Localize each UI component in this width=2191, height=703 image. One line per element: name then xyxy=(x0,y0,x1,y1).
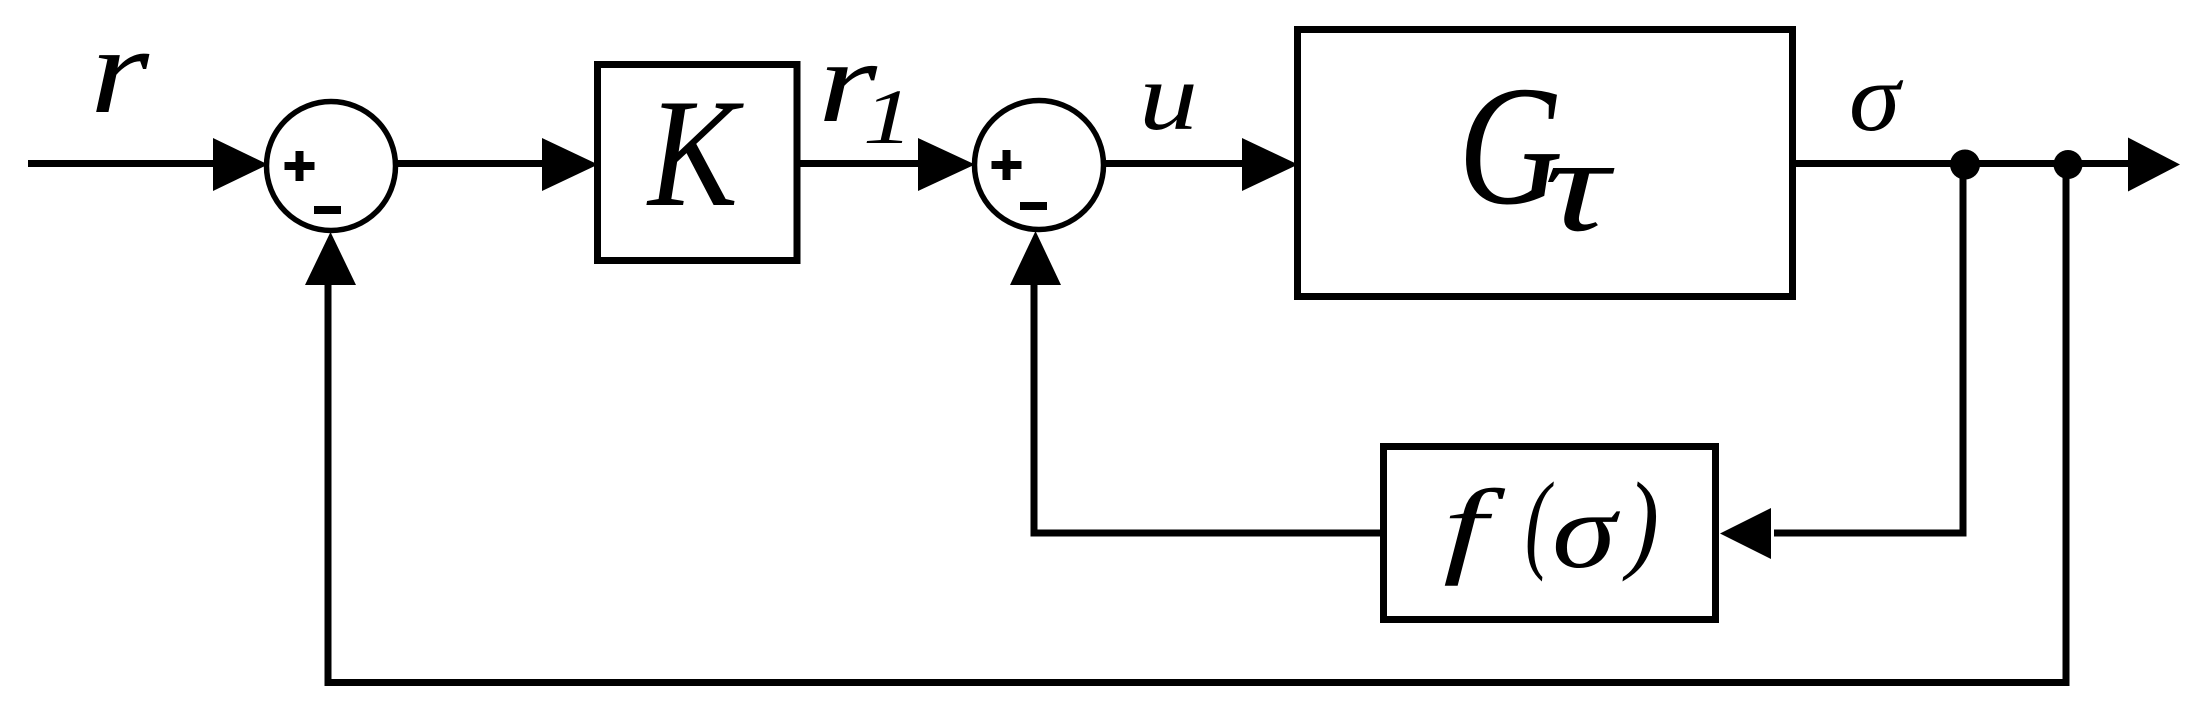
svg-text:σ: σ xyxy=(1849,44,1904,151)
svg-text:1: 1 xyxy=(863,73,913,160)
svg-text:τ: τ xyxy=(1544,111,1615,260)
svg-text:K: K xyxy=(646,67,744,239)
svg-text:(: ( xyxy=(1525,460,1554,582)
svg-text:r: r xyxy=(90,2,150,139)
svg-text:): ) xyxy=(1622,460,1659,582)
svg-text:u: u xyxy=(1139,43,1198,150)
svg-text:σ: σ xyxy=(1552,472,1620,591)
